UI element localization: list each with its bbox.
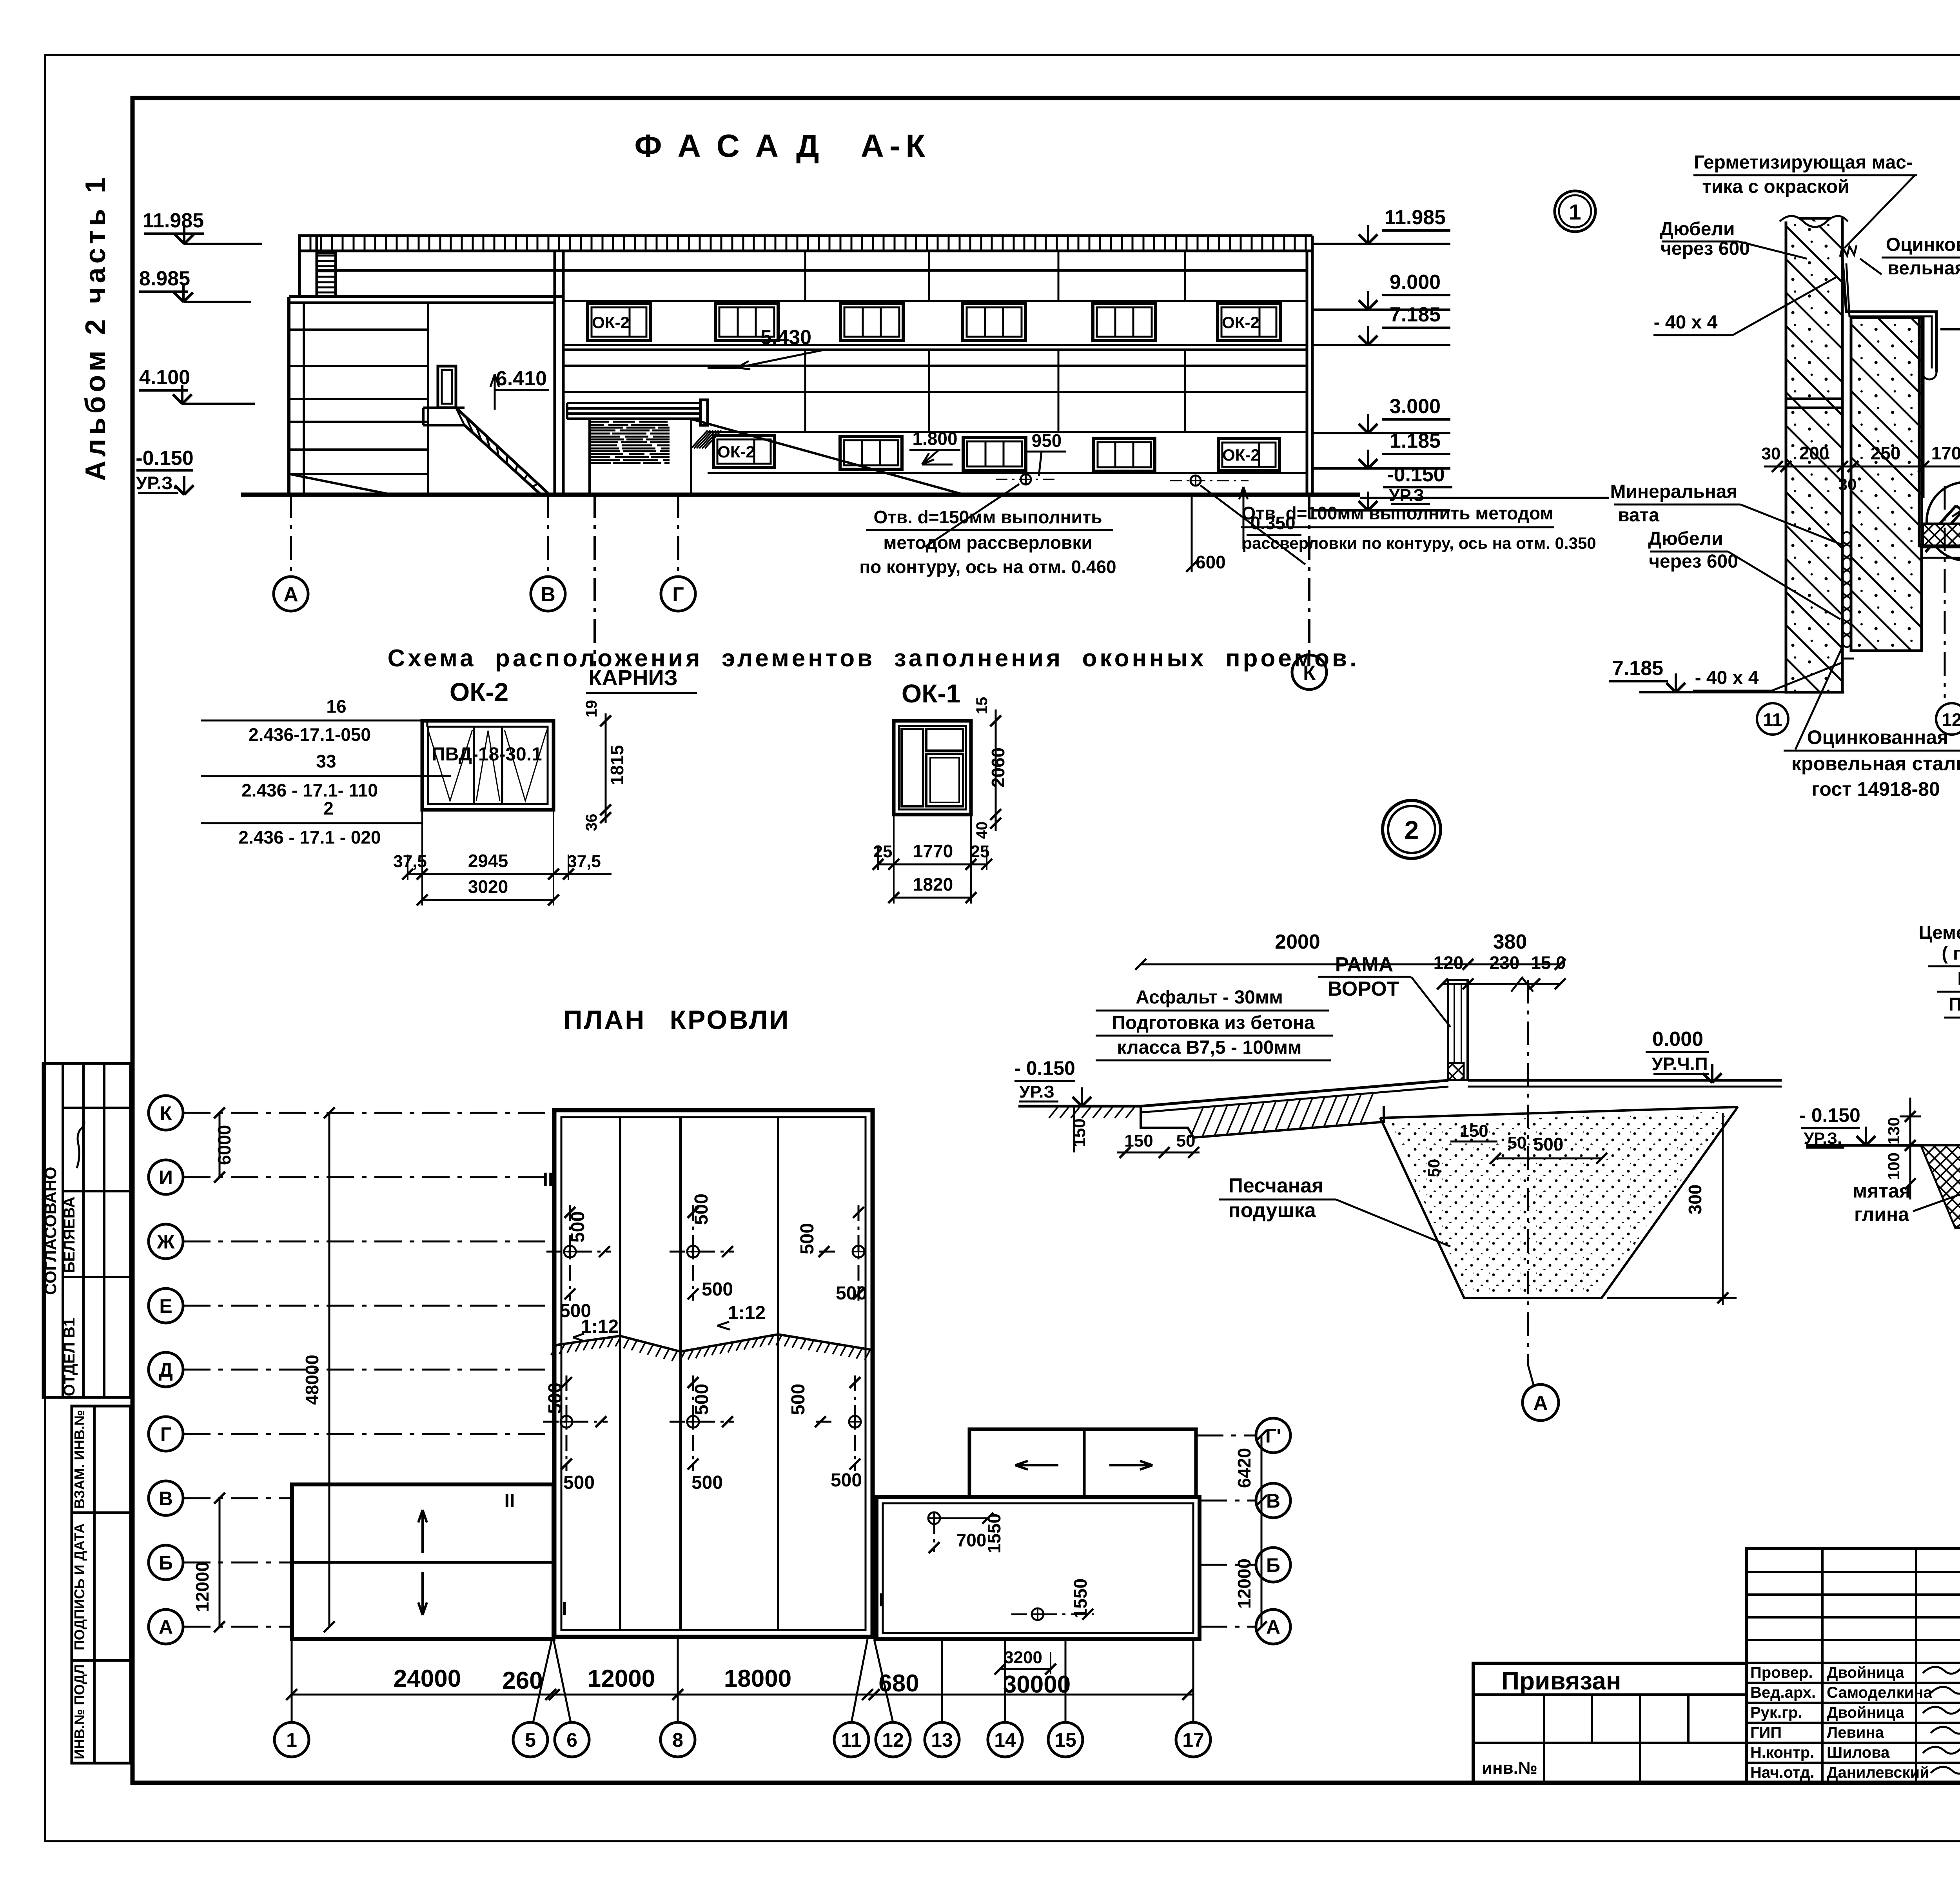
svg-text:17: 17 — [1182, 1729, 1204, 1751]
svg-text:Дюбели: Дюбели — [1660, 219, 1735, 240]
svg-text:33: 33 — [316, 751, 336, 771]
roof bottom axis leaders — [291, 1639, 293, 1722]
svg-text:Альбом 2 часть 1: Альбом 2 часть 1 — [80, 174, 111, 481]
svg-text:950: 950 — [1032, 430, 1062, 451]
detail 1 left wall — [1786, 218, 1842, 692]
detail 1 mortar bed crosshatch — [1923, 524, 1960, 546]
title block staff upper rows — [1746, 1571, 1960, 1573]
svg-text:40: 40 — [973, 822, 991, 839]
roof axis dash lines — [183, 1112, 554, 1114]
svg-text:К: К — [160, 1102, 172, 1124]
svg-text:30000: 30000 — [1003, 1671, 1071, 1698]
svg-text:15: 15 — [973, 697, 991, 715]
svg-text:24000: 24000 — [394, 1665, 461, 1692]
svg-text:18000: 18000 — [724, 1665, 791, 1692]
svg-text:ПОДПИСЬ И ДАТА: ПОДПИСЬ И ДАТА — [71, 1523, 87, 1650]
svg-text:-0.150: -0.150 — [1387, 463, 1445, 486]
svg-text:ОК-1: ОК-1 — [902, 679, 960, 708]
roof right block funnel 1 — [928, 1512, 940, 1524]
svg-text:класса В7,5 - 100мм: класса В7,5 - 100мм — [1117, 1037, 1302, 1058]
svg-text:Герметизирующая мас-: Герметизирующая мас- — [1694, 152, 1913, 173]
roof left block — [292, 1484, 554, 1639]
roof right block — [877, 1497, 1200, 1639]
detail 2 ramp slab — [1141, 1106, 1384, 1138]
roof right axis circles — [1196, 1435, 1256, 1437]
svg-text:ОК-2: ОК-2 — [1222, 446, 1260, 464]
roof left block ridge — [292, 1561, 554, 1564]
approval table inner verticals — [62, 1063, 64, 1397]
svg-text:вельная сталь: вельная сталь — [1887, 258, 1960, 279]
svg-text:500: 500 — [563, 1472, 595, 1493]
svg-text:19: 19 — [583, 700, 600, 718]
svg-text:700: 700 — [956, 1530, 987, 1550]
window ОК-1 right dims — [995, 709, 997, 831]
detail 3 clay wedge — [1921, 1145, 1960, 1228]
svg-text:50: 50 — [1508, 1133, 1527, 1152]
svg-text:инв.№: инв.№ — [1482, 1758, 1537, 1778]
svg-text:тика с окраской: тика с окраской — [1702, 176, 1849, 197]
svg-text:Самоделкина: Самоделкина — [1827, 1684, 1932, 1701]
svg-text:Г: Г — [672, 583, 684, 606]
svg-text:37,5: 37,5 — [567, 852, 601, 871]
svg-text:48000: 48000 — [302, 1355, 322, 1405]
svg-text:Асфальт - 30мм: Асфальт - 30мм — [1136, 987, 1283, 1008]
facade upper window #4 — [963, 303, 1025, 341]
svg-text:Двойница: Двойница — [1827, 1704, 1904, 1721]
facade panel joints — [804, 251, 806, 301]
roof bottom axis circles — [274, 1722, 309, 1757]
svg-text:2.436-17.1-050: 2.436-17.1-050 — [249, 724, 371, 745]
detail 1 wall top break — [1780, 216, 1848, 227]
svg-text:2.436 - 17.1 - 020: 2.436 - 17.1 - 020 — [238, 827, 381, 847]
svg-text:13: 13 — [931, 1729, 953, 1751]
svg-text:300: 300 — [1685, 1185, 1705, 1215]
svg-text:3.000: 3.000 — [1390, 395, 1441, 418]
svg-text:ФАСАД: ФАСАД — [635, 128, 836, 164]
svg-text:150: 150 — [1459, 1121, 1488, 1141]
svg-text:- 0.150: - 0.150 — [1799, 1104, 1860, 1126]
svg-text:Д: Д — [159, 1359, 173, 1381]
detail 2 dim 500 — [1495, 1158, 1602, 1159]
detail 1 anchor bubble circle — [1927, 482, 1960, 561]
svg-text:вата: вата — [1618, 505, 1659, 526]
svg-text:1815: 1815 — [607, 745, 627, 785]
detail 2 gate post base — [1448, 1063, 1464, 1080]
roof ridge wavy line — [554, 1334, 873, 1352]
facade stair flight — [456, 408, 548, 493]
svg-text:Минеральная: Минеральная — [1610, 481, 1738, 502]
svg-text:Отв. d=100мм выполнить методом: Отв. d=100мм выполнить методом — [1241, 503, 1553, 523]
svg-text:1.185: 1.185 — [1390, 430, 1441, 452]
roof dim 48000 — [328, 1113, 330, 1627]
svg-text:100: 100 — [1884, 1152, 1903, 1180]
svg-text:Песчаная: Песчаная — [1229, 1174, 1324, 1197]
facade lower-left block inner vertical — [303, 303, 305, 495]
svg-text:КРОВЛИ: КРОВЛИ — [670, 1005, 790, 1035]
svg-text:500: 500 — [691, 1472, 723, 1493]
svg-text:7.185: 7.185 — [1390, 303, 1441, 326]
svg-text:6.410: 6.410 — [496, 367, 547, 390]
svg-text:Г: Г — [160, 1423, 171, 1445]
facade upper window #2 — [715, 303, 778, 341]
svg-text:-0.150: -0.150 — [136, 447, 193, 470]
detail 2 centerline — [1527, 980, 1529, 1365]
detail 1 steel cap — [1840, 245, 1857, 257]
svg-text:подушка: подушка — [1228, 1199, 1316, 1222]
svg-text:1550: 1550 — [984, 1513, 1004, 1553]
roof annex arrows — [1015, 1464, 1058, 1466]
svg-text:Данилевский: Данилевский — [1827, 1764, 1929, 1781]
facade axis circle А — [274, 577, 308, 611]
detail 2 right floor — [1468, 1079, 1782, 1082]
detail 2 ground hatch left — [1049, 1106, 1058, 1118]
svg-text:Схема расположения элементов: Схема расположения элементов заполнения … — [388, 645, 1359, 672]
detail 1 gap lines — [1841, 218, 1844, 692]
svg-text:I: I — [878, 1590, 884, 1611]
svg-text:глина: глина — [1854, 1203, 1909, 1225]
svg-text:ПЛАН: ПЛАН — [563, 1005, 646, 1035]
facade canopy slab — [567, 402, 701, 404]
svg-text:12000: 12000 — [192, 1562, 212, 1612]
roof tall block — [554, 1110, 873, 1637]
facade drill hole #2 leader — [1200, 485, 1305, 564]
svg-text:1820: 1820 — [913, 874, 953, 895]
svg-text:500: 500 — [691, 1194, 712, 1225]
facade axis line А — [290, 495, 292, 577]
facade tall part right edge — [1306, 251, 1308, 495]
svg-text:500: 500 — [797, 1223, 818, 1254]
svg-text:Левина: Левина — [1827, 1724, 1884, 1741]
roof axis circles left — [149, 1096, 183, 1130]
svg-text:1.800: 1.800 — [912, 428, 957, 449]
svg-text:1:12: 1:12 — [728, 1303, 766, 1323]
title block staff columns — [1821, 1548, 1824, 1783]
label КАРНИЗ — [593, 495, 596, 666]
detail 2 dim 2000 — [1141, 964, 1468, 965]
svg-text:кровельная сталь: кровельная сталь — [1791, 753, 1960, 775]
svg-text:ВЗАМ. ИНВ.№: ВЗАМ. ИНВ.№ — [71, 1410, 87, 1509]
svg-text:500: 500 — [788, 1384, 809, 1415]
detail 2 axis circle А — [1523, 1384, 1559, 1421]
svg-text:УР.З.: УР.З. — [136, 473, 178, 493]
facade lower window #3 — [963, 437, 1026, 470]
svg-text:- 40 x 4: - 40 x 4 — [1654, 312, 1718, 333]
detail 1 right wall — [1851, 318, 1922, 651]
facade axis line К — [1308, 495, 1310, 655]
svg-text:25: 25 — [873, 842, 893, 861]
svg-text:- 0.150: - 0.150 — [1014, 1057, 1075, 1079]
facade line under tiles — [317, 269, 1307, 272]
svg-text:А-К: А-К — [861, 128, 931, 164]
svg-text:15: 15 — [1054, 1729, 1076, 1751]
svg-text:11.985: 11.985 — [143, 209, 204, 232]
svg-text:12000: 12000 — [1234, 1559, 1254, 1609]
facade left tower — [299, 236, 317, 297]
detail 2 gate post — [1448, 980, 1468, 1080]
svg-text:500: 500 — [560, 1301, 591, 1321]
roof dim 6000 К-И — [219, 1113, 221, 1177]
facade canopy shaded brick area — [590, 422, 670, 463]
svg-text:II: II — [543, 1169, 554, 1190]
svg-text:200: 200 — [1799, 443, 1829, 463]
svg-text:500: 500 — [568, 1211, 588, 1243]
svg-text:( поверхность зажелезнить): ( поверхность зажелезнить) — [1942, 943, 1960, 964]
svg-text:1550: 1550 — [1070, 1579, 1091, 1619]
svg-text:30: 30 — [1838, 475, 1857, 494]
roof funnels tall block upper row — [564, 1246, 576, 1257]
inventory strip ПОДПИСЬ И ДАТА — [72, 1513, 131, 1660]
svg-text:Двойница: Двойница — [1827, 1664, 1904, 1681]
detail 1 anchor strokes — [1919, 506, 1956, 547]
svg-text:I: I — [562, 1599, 567, 1619]
facade canopy end post — [701, 400, 708, 425]
roof bottom dim line — [292, 1694, 1193, 1696]
facade slope under left block — [289, 474, 392, 495]
svg-text:14: 14 — [994, 1729, 1016, 1751]
svg-text:500: 500 — [831, 1470, 862, 1491]
title block staff lower rows — [1746, 1682, 1960, 1684]
detail 3 ground line left — [1806, 1144, 1960, 1147]
svg-text:БЕЛЯЕВА: БЕЛЯЕВА — [61, 1197, 78, 1273]
svg-text:50: 50 — [1176, 1131, 1196, 1150]
svg-text:380: 380 — [1493, 931, 1527, 953]
facade drill hole #1 — [1021, 474, 1031, 484]
window ОК-2 drawing — [422, 721, 554, 810]
detail 1 mineral wool in gap — [1842, 532, 1851, 544]
svg-text:ГИП: ГИП — [1750, 1724, 1782, 1741]
svg-text:Нач.отд.: Нач.отд. — [1750, 1764, 1814, 1781]
svg-text:В: В — [541, 583, 555, 606]
svg-text:мятая: мятая — [1853, 1180, 1911, 1202]
svg-text:И: И — [159, 1167, 173, 1189]
svg-text:250: 250 — [1871, 443, 1901, 463]
roof dim 12000 В-А — [219, 1498, 221, 1627]
facade 0.350 arrow — [1243, 487, 1245, 549]
svg-text:ИНВ.№ ПОДЛ: ИНВ.№ ПОДЛ — [71, 1664, 87, 1759]
facade lower-left block siding lines — [289, 328, 428, 331]
approval table box — [43, 1063, 131, 1397]
svg-text:2: 2 — [323, 798, 334, 818]
svg-text:Оцинкованная: Оцинкованная — [1807, 726, 1949, 748]
svg-text:130: 130 — [1884, 1117, 1903, 1145]
window ОК-2 right dims — [605, 713, 607, 823]
facade drill hole #2 — [1191, 475, 1201, 486]
svg-text:8: 8 — [672, 1729, 683, 1751]
detail 2 bubble — [1383, 800, 1441, 858]
svg-text:Цементно-песчаный расвор марки: Цементно-песчаный расвор марки 200 — [1919, 922, 1960, 943]
detail 2 ramp hatch — [1190, 1107, 1203, 1138]
facade drill hole #1 leader — [925, 484, 1019, 547]
svg-text:230: 230 — [1490, 953, 1520, 973]
svg-text:15 0: 15 0 — [1531, 953, 1566, 973]
svg-text:1: 1 — [286, 1729, 297, 1751]
roof right block funnel 2 — [1032, 1608, 1044, 1620]
svg-text:2060: 2060 — [988, 748, 1008, 788]
inventory strip ВЗАМ ИНВ № — [72, 1406, 131, 1513]
svg-text:1: 1 — [1569, 200, 1581, 224]
roof funnels tall block lower row — [561, 1416, 572, 1428]
svg-text:Песок, уплотненный щебнем: Песок, уплотненный щебнем — [1949, 994, 1960, 1014]
facade upper window #5 — [1093, 303, 1156, 341]
svg-text:6: 6 — [566, 1729, 577, 1751]
svg-text:через 600: через 600 — [1649, 551, 1738, 572]
detail 2 break mark — [1511, 978, 1533, 992]
facade hatch wedge right of canopy — [691, 430, 708, 448]
svg-text:- 40 x 4: - 40 x 4 — [1695, 668, 1759, 688]
svg-text:500: 500 — [702, 1279, 733, 1300]
svg-text:Бетон класса В7,5: Бетон класса В7,5 — [1957, 968, 1960, 989]
svg-text:2000: 2000 — [1275, 931, 1320, 953]
svg-text:170: 170 — [1931, 443, 1960, 463]
facade ground slope line — [691, 419, 964, 495]
svg-text:ВОРОТ: ВОРОТ — [1328, 978, 1399, 1000]
window ОК-2 opening symbols — [428, 730, 472, 801]
facade ground line — [241, 493, 1360, 497]
roof left block slope arrows — [421, 1510, 424, 1553]
svg-text:12000: 12000 — [588, 1665, 655, 1692]
svg-text:Рук.гр.: Рук.гр. — [1750, 1704, 1802, 1721]
svg-text:II: II — [505, 1491, 515, 1512]
svg-text:УР.З: УР.З — [1019, 1082, 1054, 1101]
facade lower window #2 — [840, 436, 902, 469]
roof dim 3200 — [1000, 1668, 1051, 1670]
approval signature squiggle — [77, 1118, 84, 1168]
facade lower window #4 — [1094, 438, 1155, 471]
svg-text:Е: Е — [159, 1295, 172, 1317]
detail 1 bubble — [1555, 191, 1595, 232]
detail 2 sub dims 120 230 150 — [1443, 983, 1560, 985]
detail 1 axis circle 11 — [1757, 703, 1788, 735]
svg-text:ОК-2: ОК-2 — [592, 313, 630, 332]
facade upper window #3 — [840, 303, 903, 341]
facade axis line Г — [677, 495, 679, 577]
svg-text:методом рассверловки: методом рассверловки — [883, 532, 1092, 553]
svg-text:3020: 3020 — [468, 876, 508, 897]
title block signatures — [1923, 1662, 1960, 1773]
svg-text:ОК-2: ОК-2 — [717, 443, 755, 461]
title block staff table outline — [1746, 1548, 1960, 1783]
svg-text:1770: 1770 — [913, 841, 953, 861]
detail 3 dims left 130 100 — [1900, 1116, 1921, 1118]
facade band lines right part — [563, 300, 1307, 302]
svg-text:Ж: Ж — [156, 1231, 175, 1253]
roof annex block — [969, 1429, 1196, 1497]
detail 1 dim 7500 vertical — [1922, 557, 1960, 559]
svg-text:500: 500 — [836, 1283, 867, 1304]
svg-text:Оцинкованная кро-: Оцинкованная кро- — [1886, 234, 1960, 255]
svg-text:ОК-2: ОК-2 — [1222, 313, 1259, 332]
svg-text:2.436 - 17.1- 110: 2.436 - 17.1- 110 — [241, 780, 378, 800]
svg-text:А: А — [1533, 1392, 1548, 1415]
svg-text:УР.З: УР.З — [1389, 486, 1424, 505]
svg-text:рассверловки по контуру, ось н: рассверловки по контуру, ось на отм. 0.3… — [1242, 534, 1596, 552]
svg-text:УР.Ч.П: УР.Ч.П — [1651, 1054, 1708, 1074]
detail 2 foundation pit — [1380, 1107, 1738, 1298]
svg-text:А: А — [1266, 1616, 1280, 1638]
svg-text:11: 11 — [841, 1729, 862, 1751]
svg-text:150: 150 — [1070, 1118, 1089, 1147]
svg-text:по контуру, ось на отм. 0.460: по контуру, ось на отм. 0.460 — [859, 557, 1116, 577]
detail 2 ground line left — [1018, 1105, 1141, 1108]
window ОК-1 inner panes — [902, 729, 923, 806]
svg-text:500: 500 — [1534, 1134, 1564, 1154]
roof right dim 12000 — [1261, 1501, 1263, 1627]
svg-text:2: 2 — [1405, 815, 1419, 844]
facade canopy side walls — [588, 419, 591, 495]
detail 1 centerline — [1944, 486, 1946, 698]
svg-text:500: 500 — [545, 1383, 566, 1414]
facade upper window ОК-2 #1 — [588, 303, 650, 341]
svg-text:30: 30 — [1762, 444, 1781, 463]
svg-text:Шилова: Шилова — [1827, 1744, 1890, 1761]
svg-text:Вед.арх.: Вед.арх. — [1750, 1684, 1816, 1701]
svg-text:600: 600 — [1196, 552, 1226, 572]
detail 1 dims 30 200 250 170 — [1777, 466, 1786, 467]
svg-text:Дюбели: Дюбели — [1648, 528, 1723, 549]
svg-text:через 600: через 600 — [1661, 238, 1750, 259]
svg-text:500: 500 — [691, 1384, 712, 1415]
svg-text:ОК-2: ОК-2 — [450, 677, 508, 706]
svg-text:Б: Б — [159, 1552, 173, 1574]
roof tall block joints — [619, 1117, 621, 1630]
facade axis line В — [547, 495, 549, 577]
svg-text:5.430: 5.430 — [760, 326, 811, 349]
facade stair section wall verticals — [427, 303, 429, 495]
detail 1 left wall joint — [1786, 397, 1842, 400]
detail 2 pit sand fill — [1390, 1111, 1731, 1294]
inventory strip ИНВ № ПОДЛ — [72, 1660, 131, 1763]
facade 600 dim — [1191, 495, 1193, 572]
detail 1 wall bottom lines — [1851, 650, 1922, 652]
detail 2 dim 380 — [1468, 964, 1560, 965]
approval table inner horizontals — [63, 1107, 131, 1109]
svg-text:В: В — [159, 1488, 173, 1510]
facade upper window ОК-2 #6 — [1218, 303, 1280, 341]
svg-text:5: 5 — [525, 1729, 536, 1751]
svg-text:11: 11 — [1763, 709, 1782, 730]
svg-text:260: 260 — [502, 1667, 543, 1694]
svg-text:ПВД-18-30.1: ПВД-18-30.1 — [432, 744, 542, 765]
svg-text:120: 120 — [1434, 953, 1464, 973]
svg-text:2945: 2945 — [468, 851, 508, 871]
svg-text:6000: 6000 — [214, 1125, 234, 1165]
svg-text:7.185: 7.185 — [1612, 657, 1663, 680]
svg-text:12: 12 — [882, 1729, 904, 1751]
roof right dim 6420 — [1261, 1435, 1263, 1501]
facade tower ladder — [317, 253, 336, 297]
svg-text:Подготовка из бетона: Подготовка из бетона — [1112, 1013, 1315, 1033]
svg-text:Привязан: Привязан — [1501, 1667, 1621, 1695]
facade stair platform — [423, 406, 465, 409]
svg-text:11.985: 11.985 — [1385, 206, 1446, 229]
svg-text:50: 50 — [1425, 1159, 1443, 1178]
svg-text:3200: 3200 — [1004, 1648, 1042, 1667]
detail 2 dim 300 — [1693, 1106, 1694, 1298]
detail 1 axis circle 12 — [1936, 703, 1960, 735]
facade lower window ОК-2 #5 — [1218, 439, 1279, 471]
svg-text:Отв. d=150мм выполнить: Отв. d=150мм выполнить — [873, 507, 1102, 527]
detail 1 flashing vertical — [1918, 316, 1920, 547]
svg-text:16: 16 — [326, 696, 346, 717]
svg-text:гост 14918-80: гост 14918-80 — [1811, 778, 1940, 800]
svg-text:Г': Г' — [1265, 1425, 1281, 1447]
window ОК-1 drawing — [894, 721, 971, 815]
facade lower-left block outline — [289, 295, 563, 298]
title block привязан grid — [1473, 1693, 1746, 1696]
title block привязан box — [1473, 1663, 1746, 1783]
facade lower window ОК-2 #1 — [713, 435, 775, 468]
roof ridge hatch ticks — [551, 1345, 557, 1355]
